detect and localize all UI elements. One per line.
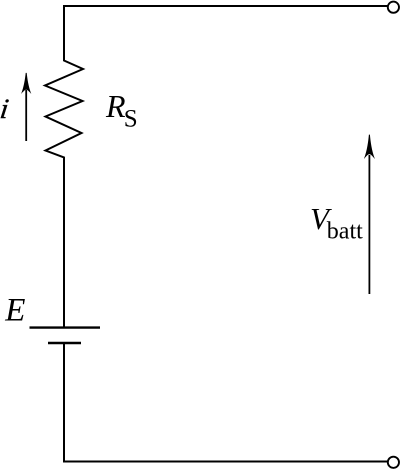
svg-text:E: E	[4, 292, 25, 328]
svg-text:batt: batt	[327, 219, 363, 245]
svg-text:i: i	[0, 94, 10, 125]
svg-text:S: S	[124, 105, 138, 132]
